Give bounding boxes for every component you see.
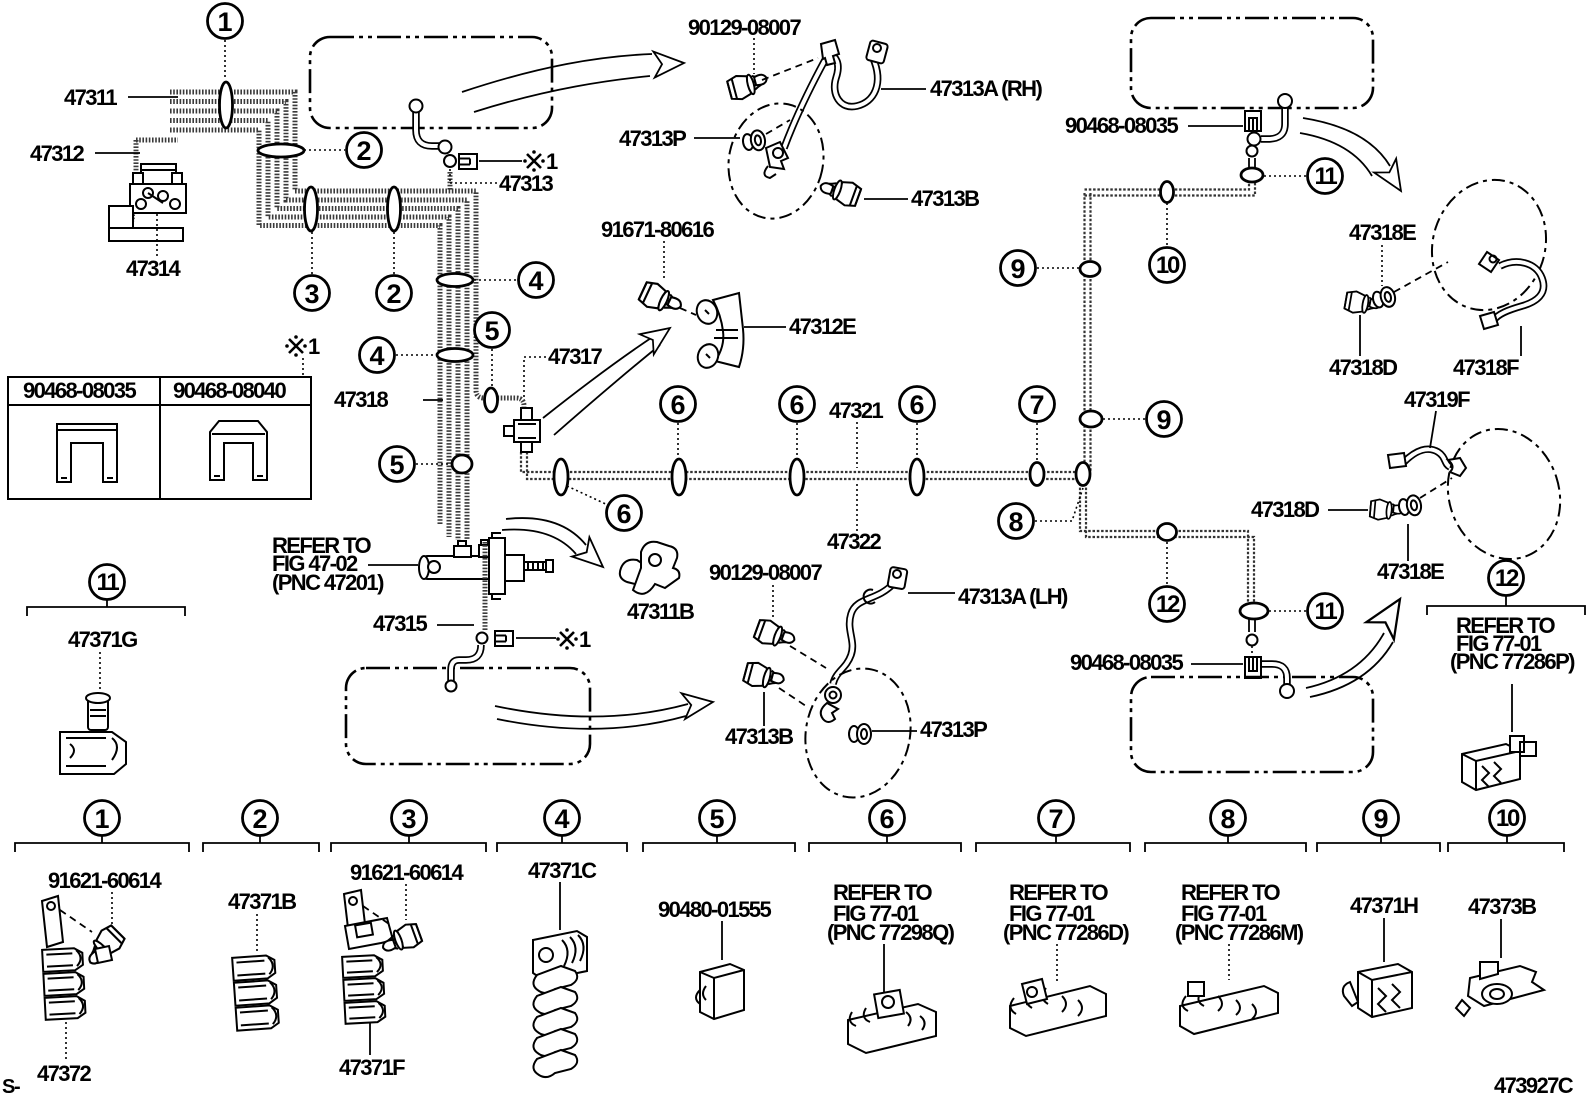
hat flange col1 <box>95 946 112 963</box>
grommet 47313P front RH <box>741 129 766 153</box>
leader 47311 <box>128 96 178 98</box>
leader col12 <box>1511 684 1513 732</box>
svg-text:3: 3 <box>304 279 319 309</box>
svg-text:1: 1 <box>579 627 591 652</box>
svg-text:90129-08007: 90129-08007 <box>688 15 801 40</box>
arrow rear-right box upward <box>1306 590 1414 697</box>
callout 5 at 397,464 <box>380 447 452 482</box>
oval grommet 11 lower on rear pipe <box>1240 603 1268 619</box>
part bracket+bolt col3 91621-60614 <box>344 890 393 949</box>
callout 8 at 1016,521 <box>999 488 1084 539</box>
svg-text:(PNC 77286D): (PNC 77286D) <box>1003 920 1129 945</box>
callout 6 at 797,404 <box>780 387 815 459</box>
dashed leaders LH <box>779 646 826 706</box>
brake hose 47313A RH <box>764 40 888 178</box>
legend callout 5 <box>643 801 795 853</box>
leader 47318 <box>423 399 443 401</box>
svg-text:9: 9 <box>1010 254 1025 284</box>
svg-text:12: 12 <box>1495 565 1519 592</box>
leader 47313P LH <box>872 730 917 732</box>
brake hose 47318F <box>1479 252 1544 329</box>
svg-text:5: 5 <box>709 804 724 834</box>
legend callout 7 <box>976 801 1130 853</box>
svg-text:47313A (LH): 47313A (LH) <box>958 584 1068 609</box>
oval grommet 6 fourth on main tube <box>910 459 924 495</box>
callout 11 at 1325,611 <box>1269 594 1343 629</box>
svg-text:6: 6 <box>909 390 924 420</box>
rear tube branch descending <box>1080 479 1254 603</box>
leader 90129-08007 bottom <box>772 585 774 617</box>
part clamp col8 PNC 77286M <box>1180 982 1278 1034</box>
leader 47313P RH <box>694 137 740 139</box>
leader 47313 <box>450 169 497 183</box>
oval grommet 3 on bundle <box>305 187 318 231</box>
leader X1 table <box>302 358 304 376</box>
svg-text:47318F: 47318F <box>1453 355 1519 380</box>
callout 4 at 377,355 <box>360 338 437 373</box>
leader 47313A RH <box>881 88 926 90</box>
clip 90468-08035 lower <box>1245 657 1261 678</box>
part clamp col12 PNC 77286P <box>1462 736 1536 790</box>
svg-text:47371F: 47371F <box>339 1055 405 1080</box>
leader 90468-08035 bottom <box>1191 663 1243 665</box>
svg-text:47311B: 47311B <box>627 599 694 624</box>
svg-text:47313A (RH): 47313A (RH) <box>930 76 1042 101</box>
svg-text:47313: 47313 <box>499 171 554 196</box>
dashed ellipse front RH hub <box>718 94 834 227</box>
bolt 90129-08007 front RH <box>726 68 770 101</box>
bracket 47311B <box>620 542 680 594</box>
svg-text:47313B: 47313B <box>911 186 979 211</box>
fitting circle 47313 <box>444 155 456 167</box>
callout 6 at 624,513 <box>567 486 642 531</box>
callout 10 at 1167,265 <box>1150 203 1185 283</box>
oval grommet 6 first on main tube <box>554 459 568 495</box>
leader 47318E rear LH <box>1407 524 1409 561</box>
svg-text:2: 2 <box>252 804 267 834</box>
leader 47371B <box>256 914 258 952</box>
leader 47312 <box>95 152 140 154</box>
part 90480-01555 <box>696 964 744 1019</box>
leader 90129-08007 top <box>753 38 755 74</box>
legend callout 4 <box>497 801 627 853</box>
main tube 47321/47322 <box>521 452 1086 479</box>
legend callout 6 <box>809 801 961 853</box>
valve 47317 <box>504 408 540 452</box>
dashed leader bolt to hose RH <box>762 58 818 134</box>
svg-text:8: 8 <box>1220 804 1235 834</box>
leader 47318D rear RH <box>1359 315 1361 356</box>
leader 90480-01555 <box>721 921 723 960</box>
svg-text:90480-01555: 90480-01555 <box>658 897 771 922</box>
svg-text:47313P: 47313P <box>920 717 987 742</box>
leader 47373B <box>1500 919 1502 958</box>
X1 mark near 47315 <box>556 627 591 652</box>
svg-text:91621-60614: 91621-60614 <box>350 860 464 885</box>
bolt 91671-80616 <box>637 279 685 319</box>
leader 47314 <box>156 214 158 256</box>
svg-text:47315: 47315 <box>373 611 428 636</box>
svg-text:1: 1 <box>217 7 232 37</box>
svg-text:11: 11 <box>1315 598 1338 625</box>
leader 91671-80616 <box>663 241 665 280</box>
leader 47312E <box>744 326 786 328</box>
svg-text:473927C: 473927C <box>1494 1073 1574 1098</box>
oval grommet 8 at main tube corner <box>1076 463 1090 486</box>
leader 47371C <box>559 882 561 930</box>
svg-text:90129-08007: 90129-08007 <box>709 560 822 585</box>
oval grommet 2 on bundle corner <box>258 144 304 157</box>
svg-text:6: 6 <box>616 499 631 529</box>
leader 91621-60614 col3 <box>405 884 407 920</box>
svg-text:91671-80616: 91671-80616 <box>601 217 714 242</box>
svg-text:47317: 47317 <box>548 344 603 369</box>
grommet 47318E rear LH <box>1397 494 1422 518</box>
callout 6 at 678,404 <box>661 387 696 459</box>
leader 47313B LH <box>763 692 765 726</box>
leader 47372 <box>65 1022 67 1062</box>
svg-text:10: 10 <box>1156 252 1180 279</box>
arrow master cylinder to 47311B <box>502 518 612 577</box>
legend callout 12 <box>1427 561 1585 616</box>
svg-text:47318: 47318 <box>334 387 389 412</box>
oval grommet 6 third on main tube <box>790 459 804 495</box>
svg-text:47371H: 47371H <box>1350 893 1418 918</box>
oval grommet 9 lower on rear tube <box>1080 411 1102 427</box>
part 47371C <box>533 931 587 1077</box>
oval grommet 5 upper <box>485 388 498 412</box>
svg-text:90468-08035: 90468-08035 <box>1065 113 1178 138</box>
bolt 91621-60614 col1 <box>80 923 127 970</box>
arrow to 47312E <box>543 318 677 435</box>
svg-text:47371G: 47371G <box>68 627 137 652</box>
legend callout 11 <box>27 565 185 617</box>
bolt 47318D rear RH <box>1344 290 1382 317</box>
svg-text:6: 6 <box>789 390 804 420</box>
legend callout 8 <box>1145 801 1306 853</box>
part clamp col6 PNC 77298Q <box>848 990 936 1053</box>
dashed ellipse rear LH hub <box>1431 414 1576 574</box>
reservoir pipe top-left box <box>410 100 452 154</box>
leader 47315 <box>437 624 474 626</box>
arrow front-right box to rear axle <box>1300 118 1412 198</box>
svg-text:1: 1 <box>94 804 109 834</box>
leader X1-47315 <box>516 637 556 639</box>
svg-text:(PNC 77286M): (PNC 77286M) <box>1175 920 1304 945</box>
leader 90468-08035 top <box>1188 125 1243 127</box>
svg-text:5: 5 <box>389 450 404 480</box>
svg-text:11: 11 <box>97 569 120 596</box>
leader 47313B RH <box>864 198 908 200</box>
leader 47313A LH <box>908 592 955 594</box>
svg-text:47321: 47321 <box>829 398 884 423</box>
svg-text:47318E: 47318E <box>1377 559 1444 584</box>
arrow front-left box to RH hose <box>462 50 685 112</box>
X1 mark above table <box>285 334 320 359</box>
callout 9 at 1018,268 <box>1001 251 1080 286</box>
dash-dot box rear-left body outline <box>346 668 590 764</box>
leader 47318E rear RH <box>1381 245 1383 286</box>
dashed leader rear LH <box>1420 478 1452 498</box>
svg-text:S-: S- <box>2 1076 20 1098</box>
svg-text:47371B: 47371B <box>228 889 296 914</box>
oval grommet 4 lower on bundle <box>437 349 473 362</box>
dash-dot box front-left body outline <box>310 37 552 128</box>
leader col7 <box>1056 944 1058 983</box>
legend callout 9 <box>1317 801 1440 853</box>
svg-text:(PNC 77286P): (PNC 77286P) <box>1450 649 1575 674</box>
dash-dot box front-right body outline <box>1131 18 1373 108</box>
svg-text:91621-60614: 91621-60614 <box>48 868 162 893</box>
dashed leader 91671 to 47312E <box>680 308 696 315</box>
table clamp icon 90468-08040 <box>210 421 267 480</box>
master cylinder PNC 47201 <box>419 533 553 599</box>
svg-text:3: 3 <box>401 804 416 834</box>
svg-text:9: 9 <box>1156 405 1171 435</box>
callout 6 at 917,404 <box>900 387 935 459</box>
leader REFER FIG 47-02 <box>368 564 418 566</box>
leader X1-47313 <box>479 160 522 162</box>
dash-dot box rear-right body outline <box>1131 677 1373 772</box>
svg-text:47311: 47311 <box>64 85 117 110</box>
arrow rear-left box to LH hose <box>495 689 715 729</box>
oval grommet 5 lower <box>452 455 472 473</box>
dashed leader to rear RH hub <box>1394 262 1448 292</box>
X1 mark near 47313 <box>523 149 558 174</box>
leader col6 <box>883 944 885 998</box>
actuator 47314 assembly <box>109 164 186 241</box>
callout 9 at 1164,419 <box>1103 402 1182 437</box>
callout 4 at 536,280 <box>474 263 554 298</box>
svg-text:2: 2 <box>356 136 371 166</box>
oval grommet 12 on rear branch <box>1158 524 1177 541</box>
callout 1 at 225,21 <box>208 4 243 81</box>
callout 2 at 364,150 <box>304 133 382 168</box>
leader 91621-60614 col1 <box>111 892 113 928</box>
oval grommet 1 on bundle <box>220 82 233 128</box>
svg-text:1: 1 <box>308 334 320 359</box>
svg-text:2: 2 <box>386 279 401 309</box>
legend callout 3 <box>331 801 486 853</box>
leader 47371H <box>1383 918 1385 962</box>
clip X1 near 47315 <box>495 631 513 646</box>
svg-text:6: 6 <box>670 390 685 420</box>
leader 47318D rear LH <box>1328 509 1368 511</box>
oval grommet 11 upper on rear pipe <box>1241 168 1263 182</box>
svg-text:90468-08035: 90468-08035 <box>1070 650 1183 675</box>
svg-text:4: 4 <box>554 804 569 834</box>
bolt 47318D rear LH <box>1370 499 1405 522</box>
rear pipe upper with 90468-08035 clip <box>1247 94 1293 168</box>
bolt 90129-08007 front LH <box>753 617 798 653</box>
legend callout 2 <box>203 801 319 853</box>
svg-text:(PNC 47201): (PNC 47201) <box>272 570 384 595</box>
part 47373B <box>1456 962 1544 1016</box>
svg-text:4: 4 <box>528 266 543 296</box>
svg-text:10: 10 <box>1496 805 1520 832</box>
legend callout 1 <box>15 801 189 853</box>
svg-text:4: 4 <box>369 341 384 371</box>
grommet 47318E rear RH <box>1371 285 1397 310</box>
brake hose 47319F <box>1388 449 1466 476</box>
callout 5 at 492,330 <box>475 313 510 388</box>
svg-text:5: 5 <box>484 316 499 346</box>
legend callout 10 <box>1448 801 1564 853</box>
svg-text:(PNC 77298Q): (PNC 77298Q) <box>827 920 955 945</box>
leader 47371G <box>99 652 101 692</box>
part 47371G <box>60 693 126 774</box>
leader 47317 <box>524 357 546 399</box>
oval grommet 4 upper on bundle <box>437 274 473 287</box>
svg-text:47318E: 47318E <box>1349 220 1416 245</box>
grommet 47313P front LH <box>849 724 871 744</box>
svg-text:47314: 47314 <box>126 256 182 281</box>
svg-text:9: 9 <box>1373 804 1388 834</box>
bolt 47313B front LH <box>742 660 786 693</box>
svg-text:47318D: 47318D <box>1251 497 1319 522</box>
bolt 47313B front RH <box>817 173 862 209</box>
clamp 47371F <box>342 955 385 1024</box>
oval grommet 2b on bundle <box>388 187 401 231</box>
svg-text:47319F: 47319F <box>1404 387 1470 412</box>
leader 47322 <box>856 484 858 531</box>
svg-text:12: 12 <box>1156 591 1180 618</box>
bolt 91621-60614 col3 <box>378 921 423 957</box>
bracket 47312 dotted outline <box>132 140 178 221</box>
rear pipe lower with 90468-08035 clip <box>1247 619 1295 698</box>
part 47371H <box>1343 964 1412 1017</box>
leader col8 <box>1228 944 1230 980</box>
clamp 47372 <box>42 948 86 1020</box>
part bracket+bolt col1 91621-60614 <box>42 896 92 947</box>
callout 7 at 1037,404 <box>1020 387 1055 462</box>
svg-text:7: 7 <box>1029 390 1044 420</box>
leader 47319F <box>1430 411 1436 448</box>
svg-text:47371C: 47371C <box>528 858 597 883</box>
svg-text:47312E: 47312E <box>789 314 856 339</box>
svg-text:47313B: 47313B <box>725 724 793 749</box>
svg-text:47313P: 47313P <box>619 126 686 151</box>
dashed ellipse front LH hub <box>794 659 923 808</box>
leader 47321 <box>856 422 858 468</box>
oval grommet 9 upper on rear tube <box>1080 262 1100 277</box>
svg-text:90468-08040: 90468-08040 <box>173 378 286 403</box>
bracket 47312E <box>693 293 743 371</box>
leader 47371F <box>369 1022 371 1055</box>
tube 47315 below master cylinder <box>446 542 488 692</box>
leader 47318F <box>1520 326 1522 356</box>
callout 2 at 394,293 <box>377 232 412 311</box>
svg-text:47372: 47372 <box>37 1061 92 1086</box>
clamp 47371B <box>232 955 279 1031</box>
svg-text:47312: 47312 <box>30 141 85 166</box>
rear tube rising to right rear <box>1085 182 1256 472</box>
callout 11 at 1325,176 <box>1264 159 1343 194</box>
svg-text:90468-08035: 90468-08035 <box>23 378 136 403</box>
svg-text:7: 7 <box>1048 804 1063 834</box>
part clamp col7 PNC 77286D <box>1010 979 1106 1036</box>
svg-text:11: 11 <box>1315 163 1338 190</box>
svg-text:8: 8 <box>1008 507 1023 537</box>
svg-text:6: 6 <box>879 804 894 834</box>
tube bundle 47311 (5 brake lines) <box>170 92 524 540</box>
svg-text:47373B: 47373B <box>1468 894 1536 919</box>
brake hose 47313A LH <box>821 567 908 722</box>
oval grommet 7 on main tube <box>1030 463 1044 486</box>
oval grommet 10 on rear tube <box>1161 182 1174 203</box>
oval grommet 6 second on main tube <box>672 459 686 495</box>
clip table 90468-08035 / 90468-08040 <box>8 377 311 499</box>
clip X1 near 47313 <box>459 154 477 169</box>
clip 90468-08035 upper <box>1245 111 1261 131</box>
table clamp icon 90468-08035 <box>57 424 117 482</box>
dashed ellipse rear RH hub <box>1415 165 1562 325</box>
tube 47313 short stub <box>448 172 453 191</box>
callout 12 at 1167,604 <box>1150 542 1185 622</box>
svg-text:47318D: 47318D <box>1329 355 1397 380</box>
callout 3 at 312,293 <box>295 232 330 311</box>
svg-text:47322: 47322 <box>827 529 882 554</box>
